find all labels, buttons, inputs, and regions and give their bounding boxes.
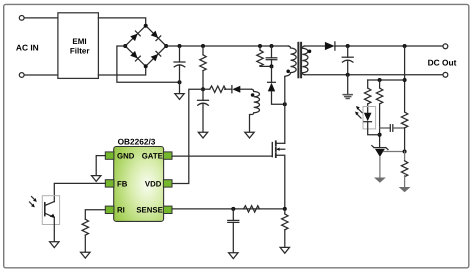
transistor Q1 MOSFET body arrow — [278, 148, 285, 150]
node: VDD supply node — [201, 87, 205, 91]
svg-text:OB2262/3: OB2262/3 — [118, 136, 156, 146]
resistor R4 sense filter — [244, 206, 260, 212]
ground: aux winding — [245, 132, 254, 138]
node: aux winding polarity dot — [251, 93, 255, 97]
bridge diode D (top-right) — [151, 31, 161, 41]
wire: AC bottom terminal to EMI filter — [24, 74, 58, 76]
resistor R9 divider upper — [401, 112, 407, 128]
diode D5 (VDD rectifier, cathode left) — [231, 86, 233, 93]
wire: VDD node to VDD pin — [172, 89, 203, 183]
node: sense RC junction — [231, 207, 235, 211]
svg-text:FB: FB — [117, 179, 128, 188]
wire: feedback tap from DC+ rail — [404, 46, 406, 112]
node: DC+ at feedback divider — [403, 44, 407, 48]
diode D3 clamp (pointing up) — [271, 66, 273, 82]
ground: VDD cap — [198, 132, 207, 138]
bridge diode D (top-left) — [130, 31, 140, 41]
ground: sense cap — [229, 253, 238, 259]
IC U1 pin tab RI — [105, 206, 114, 213]
svg-text:AC IN: AC IN — [16, 42, 39, 52]
IC U1 pin tab FB — [105, 180, 114, 187]
resistor R8 current sense — [284, 209, 286, 214]
optocoupler U2 LED box — [363, 107, 376, 129]
wire: GND pin to ground — [96, 156, 105, 176]
node: ground rail at bulk cap — [178, 80, 182, 84]
wire: feedback line to opto resistor — [368, 79, 405, 81]
wire: TL431 ref — [384, 151, 405, 153]
wire: TL431 anode to ground — [379, 157, 381, 178]
svg-text:DC Out: DC Out — [428, 58, 457, 68]
transistor Q1 MOSFET channel — [275, 141, 277, 145]
AC input terminal bottom J2 — [19, 73, 24, 78]
node: source / Rsense junction — [283, 207, 287, 211]
node: LED cathode / TL431 cathode — [378, 133, 382, 137]
diode D2 output rectifier — [325, 42, 335, 50]
resistor R10 divider lower — [404, 152, 406, 161]
IC U1 pin tab GND — [105, 152, 114, 159]
wire: EMI top output to bridge top vertex — [98, 18, 145, 26]
node: bridge top vertex — [144, 24, 148, 28]
ground: TL431 (solid) — [374, 178, 386, 183]
ground: RI resistor — [81, 252, 90, 258]
resistor R6 bias — [379, 80, 381, 88]
ground: earth (output cap) — [343, 94, 352, 96]
wire: EMI bottom output to bridge bottom vertex — [98, 66, 145, 75]
transformer T1 primary winding — [285, 46, 296, 76]
IC U1 OB2262/3 — [114, 147, 164, 222]
svg-text:RI: RI — [117, 206, 125, 215]
IC U1 pin tab SENSE — [163, 206, 172, 213]
opto LED emission arrows — [358, 109, 362, 113]
node: DC- at output cap — [346, 73, 350, 77]
node: bridge bottom vertex — [144, 64, 148, 68]
transistor Q2 opto phototransistor — [45, 202, 55, 206]
node: bridge left vertex — [123, 44, 127, 48]
wire: secondary top to output diode — [305, 45, 325, 47]
resistor R7 RI setting — [82, 219, 88, 235]
ground: primary bulk — [179, 82, 181, 93]
svg-text:GATE: GATE — [142, 152, 163, 161]
ground: sense resistor — [280, 247, 289, 253]
wire: opto emitter to ground — [53, 217, 55, 241]
node: drain / clamp junction — [283, 102, 287, 106]
DC output terminal bottom J4 — [443, 72, 448, 77]
bridge rectifier BR1 frame — [125, 26, 166, 67]
node: snubber RC junction — [270, 64, 274, 68]
node: divider mid / ref — [403, 150, 407, 154]
resistor R1 startup — [202, 46, 204, 55]
TL431 U3 — [374, 147, 386, 149]
transformer T1 auxiliary winding — [250, 89, 260, 132]
ground: opto emitter — [50, 242, 59, 248]
capacitor C4 compensation — [380, 127, 390, 129]
wire: HV+ rail from bridge to transformer primary — [166, 45, 288, 47]
ground: divider (solid) — [399, 187, 411, 192]
AC input terminal top J1 — [19, 16, 24, 21]
wire: SENSE pin to source node — [172, 208, 285, 210]
svg-text:VDD: VDD — [145, 179, 162, 188]
node: feedback line at bias resistor — [378, 78, 382, 82]
optocoupler U2 transistor box — [42, 196, 59, 225]
capacitor C2 output electrolytic — [347, 46, 349, 57]
svg-text:EMI: EMI — [72, 37, 86, 46]
ground: IC GND — [92, 176, 101, 182]
svg-text:Filter: Filter — [70, 47, 90, 56]
wire: AC top terminal to EMI filter — [24, 17, 58, 19]
capacitor C5 sense filter — [232, 209, 234, 221]
node: secondary polarity dot — [308, 50, 312, 54]
node: DC+ at output cap — [346, 44, 350, 48]
node: feedback line at divider — [403, 78, 407, 82]
wire: primary bottom to MOSFET drain — [284, 76, 286, 143]
capacitor C3 VDD — [202, 89, 204, 100]
node: rail at snubber cap — [270, 44, 274, 48]
IC U1 pin tab GATE — [163, 152, 172, 159]
transistor Q1 MOSFET gate bar — [271, 143, 273, 157]
node: rail at snubber resistor — [258, 44, 262, 48]
diode D4 opto LED — [364, 113, 372, 122]
resistor R5 opto series — [367, 80, 369, 88]
svg-text:SENSE: SENSE — [136, 206, 162, 215]
transistor Q1 MOSFET source lead — [276, 155, 285, 209]
bridge diode D (bottom-right) — [151, 51, 161, 61]
wire: bridge left vertex to primary ground rail — [117, 46, 180, 82]
node: rail at startup resistor — [201, 44, 205, 48]
node: bridge right vertex — [164, 44, 168, 48]
resistor R3 snubber — [259, 46, 261, 50]
wire: RI pin to resistor — [85, 210, 105, 219]
opto transistor light arrows — [32, 197, 35, 200]
transformer T1 secondary winding — [302, 46, 308, 75]
transistor Q1 MOSFET drain lead — [276, 142, 285, 144]
bridge diode D (bottom-left) — [130, 51, 140, 61]
EMI filter block — [58, 13, 99, 79]
node: primary polarity dot — [286, 70, 290, 74]
capacitor C6 snubber — [271, 46, 273, 58]
wire: GATE pin to MOSFET gate — [172, 155, 272, 157]
wire: output diode to DC+ terminal — [335, 45, 443, 47]
wire: FB pin to optocoupler collector — [54, 183, 105, 201]
capacitor C1 bulk electrolytic — [179, 46, 181, 62]
DC output terminal top J3 — [443, 44, 448, 49]
wire: secondary bottom rail to DC- terminal — [305, 74, 443, 76]
IC U1 pin tab VDD — [163, 180, 172, 187]
svg-text:GND: GND — [117, 152, 135, 161]
resistor R2 (VDD series) — [203, 88, 210, 90]
transformer T1 core — [297, 43, 299, 78]
node: rail at bulk cap — [178, 44, 182, 48]
